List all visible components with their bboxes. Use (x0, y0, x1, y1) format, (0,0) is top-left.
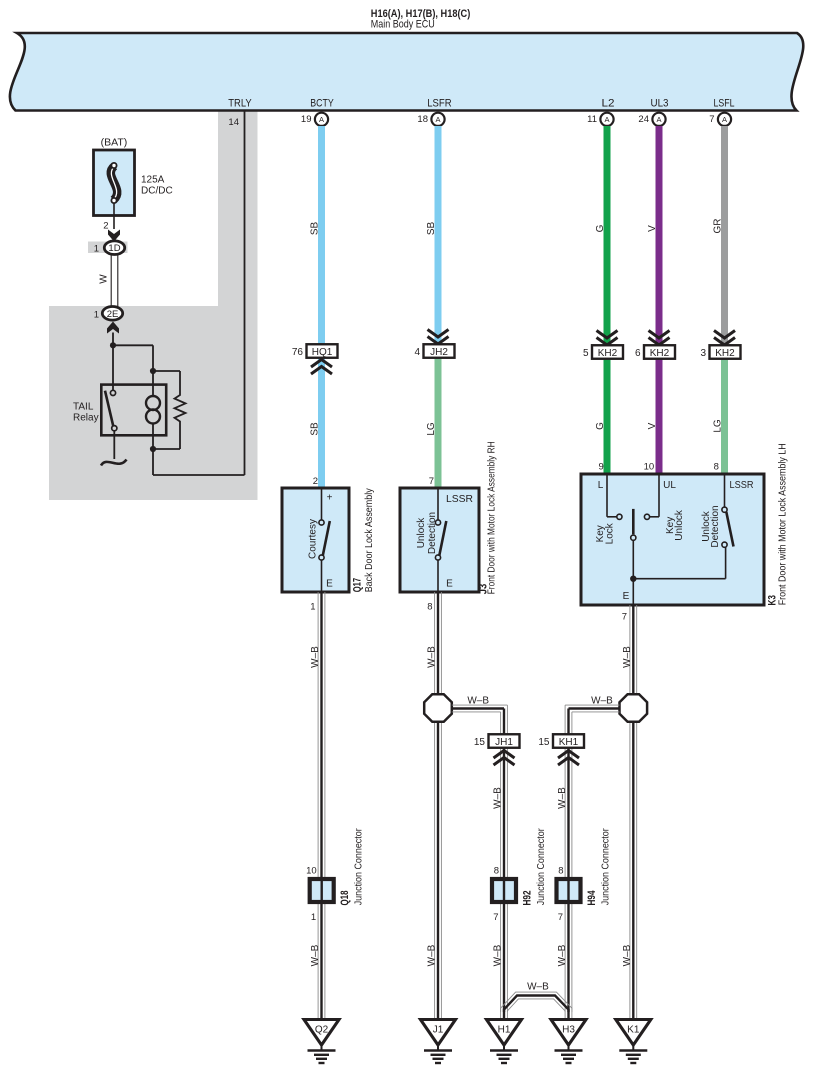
svg-text:125A: 125A (141, 175, 165, 186)
svg-text:19: 19 (301, 114, 312, 125)
svg-text:11: 11 (587, 114, 597, 125)
svg-text:TAIL: TAIL (73, 402, 94, 413)
svg-text:7: 7 (709, 114, 714, 125)
svg-text:E: E (446, 579, 453, 590)
svg-text:2E: 2E (107, 309, 119, 320)
svg-text:5: 5 (583, 348, 589, 359)
svg-text:W–B: W–B (622, 944, 633, 966)
svg-text:Q18: Q18 (339, 891, 351, 906)
svg-text:Junction Connector: Junction Connector (535, 828, 547, 905)
svg-text:A: A (319, 115, 324, 124)
svg-text:14: 14 (228, 117, 239, 128)
svg-text:UL3: UL3 (651, 98, 669, 110)
svg-text:2: 2 (103, 221, 108, 232)
svg-text:UL: UL (663, 480, 676, 491)
svg-text:1: 1 (94, 244, 99, 255)
svg-text:8: 8 (714, 461, 719, 472)
svg-text:2: 2 (313, 476, 318, 487)
svg-text:E: E (623, 591, 630, 602)
svg-text:Detection: Detection (427, 512, 438, 554)
svg-text:LSFR: LSFR (427, 98, 452, 110)
svg-text:K1: K1 (627, 1025, 640, 1036)
svg-text:LSFL: LSFL (714, 98, 735, 110)
svg-text:7: 7 (622, 612, 627, 623)
svg-text:JH1: JH1 (495, 737, 513, 748)
svg-text:1: 1 (94, 309, 99, 320)
svg-text:Relay: Relay (73, 413, 99, 424)
svg-text:KH2: KH2 (598, 348, 618, 359)
svg-text:4: 4 (414, 347, 420, 358)
svg-text:7: 7 (493, 912, 498, 923)
svg-text:W: W (98, 274, 109, 284)
svg-text:18: 18 (417, 114, 428, 125)
svg-text:Q2: Q2 (315, 1025, 329, 1036)
svg-text:Front Door with Motor Lock Ass: Front Door with Motor Lock Assembly LH (776, 443, 788, 605)
svg-text:15: 15 (538, 737, 550, 748)
svg-text:6: 6 (635, 348, 641, 359)
svg-text:W–B: W–B (557, 944, 568, 966)
svg-text:W–B: W–B (427, 944, 438, 966)
svg-text:Lock: Lock (604, 522, 615, 544)
svg-text:7: 7 (558, 912, 563, 923)
svg-text:W–B: W–B (467, 695, 489, 706)
svg-text:Junction Connector: Junction Connector (600, 828, 612, 905)
svg-text:E: E (326, 579, 333, 590)
svg-text:W–B: W–B (310, 944, 321, 966)
svg-text:LG: LG (426, 422, 437, 436)
svg-text:H92: H92 (522, 891, 534, 906)
svg-text:W–B: W–B (427, 646, 438, 668)
svg-text:KH2: KH2 (715, 348, 735, 359)
svg-text:Main Body ECU: Main Body ECU (371, 18, 435, 30)
svg-text:W–B: W–B (622, 646, 633, 668)
svg-text:LSSR: LSSR (446, 494, 473, 505)
svg-text:24: 24 (638, 114, 649, 125)
svg-text:TRLY: TRLY (228, 98, 252, 110)
svg-text:W–B: W–B (527, 981, 549, 992)
svg-text:8: 8 (427, 602, 432, 613)
svg-text:Junction Connector: Junction Connector (353, 828, 365, 905)
svg-text:8: 8 (494, 866, 499, 877)
svg-text:H1: H1 (498, 1025, 511, 1036)
svg-text:L2: L2 (602, 98, 615, 110)
svg-text:H94: H94 (586, 890, 598, 906)
svg-text:A: A (604, 115, 609, 124)
svg-text:Front Door with Motor Lock Ass: Front Door with Motor Lock Assembly RH (485, 441, 497, 594)
svg-text:J1: J1 (433, 1025, 444, 1036)
svg-text:1D: 1D (108, 243, 120, 254)
svg-text:Unlock: Unlock (674, 509, 685, 541)
svg-text:Unlock: Unlock (416, 517, 427, 549)
svg-text:1: 1 (311, 912, 316, 923)
svg-text:15: 15 (474, 737, 486, 748)
svg-text:A: A (435, 115, 440, 124)
svg-text:7: 7 (429, 476, 434, 487)
svg-text:A: A (722, 115, 727, 124)
svg-text:8: 8 (558, 866, 563, 877)
svg-text:DC/DC: DC/DC (141, 186, 173, 197)
svg-text:Q17: Q17 (352, 578, 364, 593)
svg-text:SB: SB (310, 422, 321, 436)
svg-text:LG: LG (713, 419, 724, 433)
svg-text:9: 9 (599, 461, 604, 472)
svg-text:G: G (595, 224, 606, 232)
svg-text:76: 76 (292, 347, 304, 358)
svg-text:+: + (327, 493, 333, 504)
svg-text:10: 10 (644, 461, 655, 472)
svg-text:Detection: Detection (710, 505, 721, 547)
svg-text:W–B: W–B (557, 787, 568, 809)
svg-text:H3: H3 (562, 1025, 575, 1036)
svg-text:3: 3 (700, 348, 706, 359)
svg-text:V: V (647, 225, 658, 232)
svg-text:W–B: W–B (493, 944, 504, 966)
svg-text:SB: SB (426, 222, 437, 236)
svg-text:W–B: W–B (591, 695, 613, 706)
svg-text:V: V (647, 422, 658, 429)
svg-text:KH1: KH1 (559, 737, 579, 748)
svg-text:W–B: W–B (493, 787, 504, 809)
svg-text:1: 1 (310, 602, 315, 613)
svg-text:JH2: JH2 (430, 347, 448, 358)
svg-text:Back Door Lock Assembly: Back Door Lock Assembly (363, 488, 375, 593)
svg-text:W–B: W–B (310, 646, 321, 668)
svg-text:KH2: KH2 (650, 348, 670, 359)
svg-text:LSSR: LSSR (730, 480, 754, 491)
svg-text:HQ1: HQ1 (312, 347, 333, 358)
svg-text:Courtesy: Courtesy (308, 519, 319, 559)
svg-text:BCTY: BCTY (310, 98, 334, 110)
svg-text:(BAT): (BAT) (101, 137, 128, 149)
svg-text:SB: SB (310, 222, 321, 236)
svg-text:L: L (598, 480, 604, 491)
svg-text:G: G (595, 422, 606, 430)
svg-text:10: 10 (306, 866, 317, 877)
svg-text:A: A (656, 115, 661, 124)
svg-text:GR: GR (713, 219, 724, 234)
